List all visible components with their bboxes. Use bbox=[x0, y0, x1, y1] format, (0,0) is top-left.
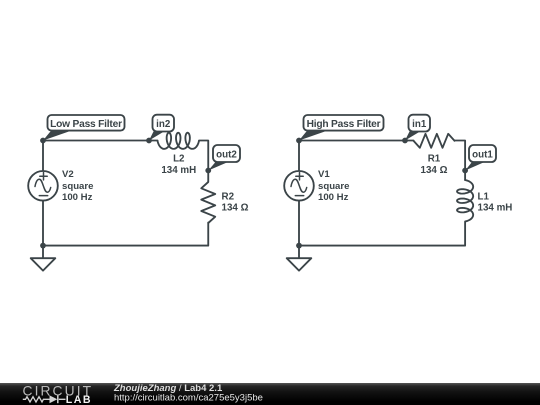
svg-text:LAB: LAB bbox=[66, 394, 92, 405]
svg-text:http://circuitlab.com/ca275e5y: http://circuitlab.com/ca275e5y3j5be bbox=[114, 393, 263, 404]
svg-text:134 Ω: 134 Ω bbox=[222, 202, 249, 213]
svg-text:V1: V1 bbox=[318, 169, 330, 180]
svg-text:in2: in2 bbox=[156, 119, 171, 130]
svg-text:100 Hz: 100 Hz bbox=[62, 192, 93, 203]
svg-text:Low Pass Filter: Low Pass Filter bbox=[50, 119, 122, 130]
svg-text:134 mH: 134 mH bbox=[161, 165, 196, 176]
svg-text:R2: R2 bbox=[222, 191, 235, 202]
svg-text:High Pass Filter: High Pass Filter bbox=[307, 119, 381, 130]
svg-text:out2: out2 bbox=[216, 149, 237, 160]
svg-text:out1: out1 bbox=[472, 149, 493, 160]
svg-text:100 Hz: 100 Hz bbox=[318, 192, 349, 203]
svg-text:134 Ω: 134 Ω bbox=[421, 165, 448, 176]
svg-text:square: square bbox=[318, 181, 349, 192]
svg-text:R1: R1 bbox=[428, 153, 441, 164]
svg-text:134 mH: 134 mH bbox=[478, 202, 513, 213]
svg-text:square: square bbox=[62, 181, 93, 192]
svg-text:in1: in1 bbox=[412, 119, 427, 130]
svg-text:V2: V2 bbox=[62, 169, 74, 180]
svg-text:L2: L2 bbox=[173, 153, 185, 164]
svg-text:L1: L1 bbox=[478, 191, 490, 202]
